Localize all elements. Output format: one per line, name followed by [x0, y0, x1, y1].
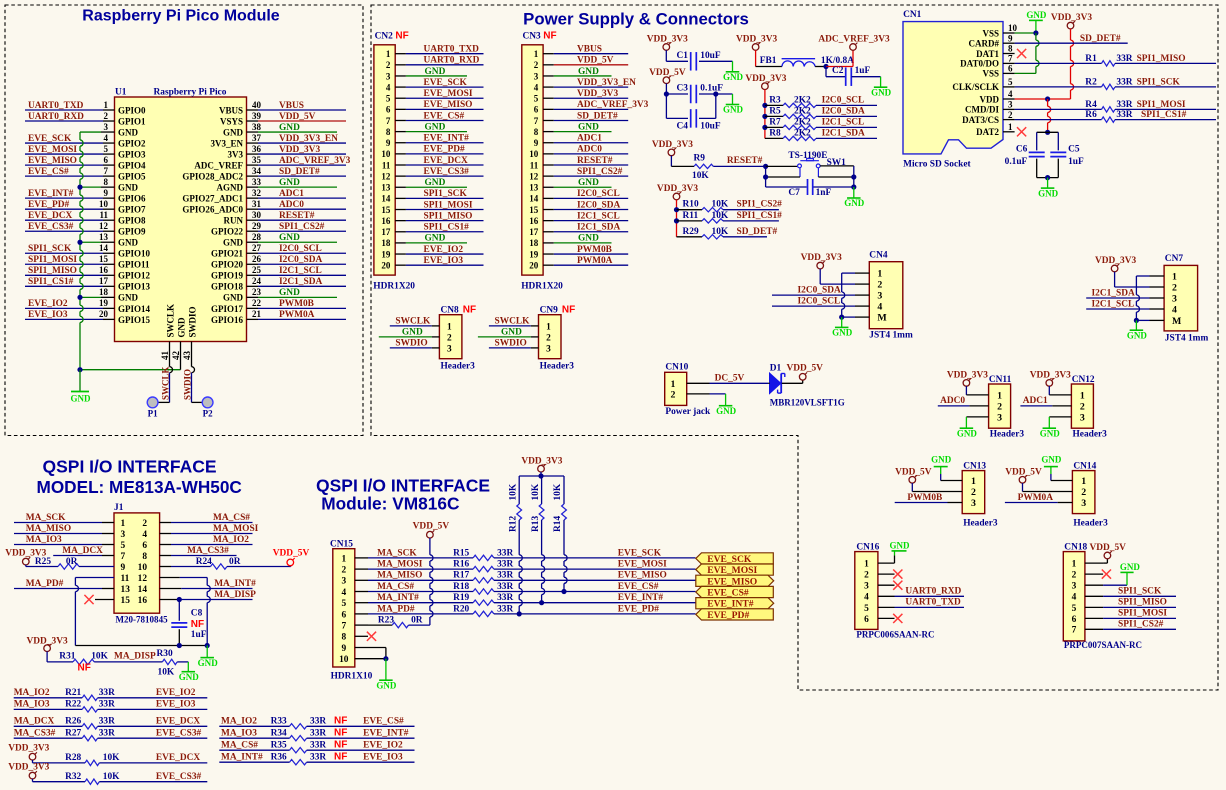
svg-text:GND: GND [279, 123, 300, 133]
svg-text:10K: 10K [158, 668, 175, 678]
capacitor C5 1uF branch [1057, 132, 1059, 150]
CN7 pin M [1150, 319, 1165, 321]
U1 right pin 29 wire/label [247, 230, 259, 232]
svg-text:33R: 33R [99, 688, 115, 698]
svg-text:EVE_DCX: EVE_DCX [156, 716, 201, 726]
wire C3 right [699, 93, 716, 95]
svg-text:C8: C8 [191, 609, 203, 619]
U1 left pin 20 wire/label [25, 318, 103, 320]
svg-text:RUN: RUN [223, 216, 243, 226]
svg-text:GPIO20: GPIO20 [211, 260, 244, 270]
svg-text:MA_MISO: MA_MISO [26, 524, 71, 534]
svg-text:EVE_MISO: EVE_MISO [28, 156, 77, 166]
CN1 pin 4 VDD [1003, 98, 1015, 100]
svg-text:R20: R20 [453, 604, 469, 614]
svg-text:5: 5 [864, 604, 869, 614]
svg-text:19: 19 [99, 298, 109, 308]
svg-text:PWM0A: PWM0A [1018, 493, 1054, 503]
svg-text:UART0_TXD: UART0_TXD [905, 598, 961, 608]
power port VDD_3V3 (I2C pullups) [762, 83, 769, 90]
CN1 pin 10 VSS [1003, 32, 1015, 34]
svg-text:GND: GND [931, 454, 952, 464]
svg-text:AGND: AGND [216, 183, 243, 193]
svg-text:R15: R15 [453, 548, 469, 558]
svg-text:6: 6 [534, 105, 539, 115]
no-connect X CN16 pin2 [893, 570, 902, 579]
svg-text:GPIO9: GPIO9 [118, 227, 146, 237]
svg-text:1: 1 [1008, 122, 1013, 132]
svg-text:MA_DCX: MA_DCX [14, 716, 55, 726]
svg-text:I2C0_SCL: I2C0_SCL [577, 189, 620, 199]
wire VDD_3V3 rail down (I2C pullups) [764, 89, 766, 138]
svg-text:ADC1: ADC1 [577, 134, 602, 144]
svg-text:40: 40 [252, 100, 262, 110]
junction at R5 row [762, 114, 767, 119]
svg-text:1: 1 [864, 560, 869, 570]
svg-text:CN18: CN18 [1064, 542, 1087, 552]
svg-text:6: 6 [1072, 615, 1077, 625]
svg-text:Header3: Header3 [990, 430, 1025, 440]
svg-text:2: 2 [386, 60, 391, 70]
svg-text:9: 9 [341, 644, 346, 654]
svg-text:EVE_MOSI: EVE_MOSI [618, 560, 667, 570]
power port VDD_3V3 (CN1) [1067, 22, 1074, 29]
U1 right pin 36 wire/label [247, 153, 259, 155]
svg-text:1: 1 [447, 322, 452, 332]
connector CN14 Header3 body [1072, 471, 1095, 514]
svg-text:23: 23 [252, 287, 262, 297]
svg-text:C2: C2 [832, 66, 844, 76]
svg-text:1uF: 1uF [191, 630, 207, 640]
svg-text:12: 12 [381, 171, 391, 181]
CN18 pin 1 [1085, 562, 1103, 564]
svg-text:VBUS: VBUS [219, 105, 243, 115]
svg-text:5: 5 [1008, 77, 1013, 87]
svg-text:GPIO7: GPIO7 [118, 205, 146, 215]
svg-text:1: 1 [386, 49, 391, 59]
svg-text:SPI1_MISO: SPI1_MISO [1137, 54, 1186, 64]
svg-text:GND: GND [179, 672, 200, 682]
ground below CN11 [965, 417, 967, 428]
section border: Raspberry Pi Pico Module box [5, 5, 363, 436]
svg-text:EVE_IO2: EVE_IO2 [424, 245, 464, 255]
U1 bottom pin 43 SWDIO [191, 342, 193, 367]
svg-text:GPIO21: GPIO21 [211, 249, 244, 259]
CN7 pin 1 [1150, 275, 1165, 277]
svg-text:UART0_TXD: UART0_TXD [28, 101, 84, 111]
svg-text:QSPI I/O INTERFACE: QSPI I/O INTERFACE [43, 457, 217, 477]
U1 right pin 40 wire/label [247, 109, 259, 111]
CN4 pin 4 [855, 305, 869, 307]
svg-text:CN1: CN1 [903, 10, 922, 20]
svg-text:Header3: Header3 [963, 519, 998, 529]
U1 left pin 4 wire/label [25, 142, 103, 144]
wire SD_DET# row [1015, 42, 1128, 44]
svg-text:8: 8 [341, 633, 346, 643]
svg-text:I2C1_SDA: I2C1_SDA [577, 223, 620, 233]
resistor R14 10K vertical [563, 476, 565, 504]
svg-text:GND: GND [223, 238, 244, 248]
junction R11 row [674, 218, 679, 223]
svg-text:1: 1 [671, 379, 676, 390]
svg-text:MA_IO2: MA_IO2 [221, 716, 257, 726]
connector CN10 power jack body [665, 372, 687, 405]
svg-text:11: 11 [99, 210, 108, 220]
svg-text:MA_CS#: MA_CS# [377, 582, 414, 592]
svg-text:I2C1_SCL: I2C1_SCL [577, 211, 620, 221]
svg-text:EVE_INT#: EVE_INT# [424, 134, 470, 144]
svg-text:VDD_5V: VDD_5V [279, 112, 316, 122]
junction CN15 GND [383, 656, 388, 661]
svg-text:32: 32 [252, 188, 262, 198]
svg-text:33R: 33R [497, 571, 513, 581]
junction at C3 row right [713, 91, 718, 96]
wire PWM0A to CN14 pin3 [1005, 502, 1058, 504]
svg-text:GND: GND [889, 540, 910, 550]
junction C5/C6 bottom [1045, 175, 1050, 180]
connector CN2 HDR1X20 body [374, 45, 395, 275]
svg-text:I2C1_SCL: I2C1_SCL [822, 117, 865, 127]
svg-text:4: 4 [386, 82, 391, 92]
resistor R19 33R row 5 [473, 600, 494, 605]
power port VDD_3V3 (CN11) [963, 380, 970, 387]
svg-text:2: 2 [877, 280, 882, 291]
svg-text:GPIO13: GPIO13 [118, 282, 151, 292]
svg-text:EVE_CS3#: EVE_CS3# [28, 222, 74, 232]
svg-text:CN9: CN9 [540, 305, 559, 315]
U1 left pin 2 wire/label [25, 120, 103, 122]
wire C4 row right [699, 117, 716, 119]
section border: Power Supply & Connectors box [371, 5, 1218, 690]
svg-text:GPIO17: GPIO17 [211, 304, 244, 314]
svg-text:5: 5 [386, 94, 391, 104]
svg-text:EVE_CS3#: EVE_CS3# [156, 772, 202, 782]
U1 left pin 15 wire/label [25, 263, 103, 265]
U1 right pin 26 wire/label [247, 263, 259, 265]
resistor R21 33R row MA_IO2->EVE_IO2 [14, 697, 83, 699]
svg-text:2: 2 [671, 390, 676, 401]
U1 right pin 28 wire/label [247, 241, 259, 243]
capacitor C2 [845, 67, 847, 86]
capacitor C4 [690, 109, 692, 128]
svg-text:VDD_3V3: VDD_3V3 [736, 35, 777, 45]
wire I2C0_SDA row [772, 294, 855, 296]
svg-text:12: 12 [138, 574, 148, 584]
power port VDD_5V (CN13) [909, 477, 916, 484]
svg-text:15: 15 [529, 205, 539, 215]
U1 right pin 24 wire/label [247, 285, 259, 287]
svg-text:R31: R31 [59, 652, 75, 662]
svg-text:3: 3 [1081, 498, 1086, 509]
svg-text:ADC0: ADC0 [577, 145, 602, 155]
svg-text:10uF: 10uF [700, 121, 721, 131]
svg-text:EVE_CS#: EVE_CS# [363, 716, 404, 726]
svg-text:5: 5 [1072, 604, 1077, 614]
svg-text:20: 20 [381, 260, 391, 270]
svg-text:EVE_CS#: EVE_CS# [618, 582, 659, 592]
svg-text:M: M [877, 313, 887, 324]
svg-text:GPIO1: GPIO1 [118, 116, 146, 126]
svg-text:9: 9 [103, 188, 108, 198]
svg-text:SPI1_CS2#: SPI1_CS2# [1118, 620, 1164, 630]
svg-text:GND: GND [1127, 330, 1148, 340]
svg-text:33R: 33R [497, 604, 513, 614]
wire CN11 pin3 to GND [966, 416, 988, 418]
svg-text:GPIO26_ADC0: GPIO26_ADC0 [182, 205, 243, 215]
power port VDD_3V3 (R28) [29, 753, 36, 760]
CN18 pin 2 [1085, 573, 1103, 575]
ground symbol below U1 left rail [79, 370, 81, 392]
CN1 pin 6 VSS [1003, 72, 1015, 74]
U1 right pin 33 wire/label [247, 186, 259, 188]
junction on GND rail at pin 13 [77, 240, 82, 245]
power port VDD_3V3 (CN7) [1111, 265, 1118, 272]
svg-text:41: 41 [160, 350, 170, 360]
svg-text:EVE_CS#: EVE_CS# [424, 111, 465, 121]
wire junction to ADC_VREF_3V3 [826, 66, 853, 68]
svg-text:VSS: VSS [982, 69, 999, 79]
svg-text:GND: GND [1041, 454, 1062, 464]
svg-text:33: 33 [252, 177, 262, 187]
svg-text:I2C0_SCL: I2C0_SCL [279, 244, 322, 254]
resistor R35 33R row MA_CS#->EVE_IO2 [219, 749, 289, 751]
svg-text:EVE_SCK: EVE_SCK [28, 134, 72, 144]
power port VDD_3V3 (R25) [23, 558, 30, 565]
svg-text:CN3: CN3 [523, 31, 542, 41]
svg-text:GND: GND [501, 328, 522, 338]
svg-text:R32: R32 [65, 772, 81, 782]
resistor R3 2K2 row I2C0_SCL [765, 104, 783, 106]
svg-text:10K: 10K [553, 483, 563, 500]
svg-text:7: 7 [534, 116, 539, 126]
svg-text:Raspberry Pi Pico Module: Raspberry Pi Pico Module [82, 8, 279, 25]
resistor R16 33R row 2 [473, 566, 494, 571]
svg-text:M: M [1172, 316, 1182, 327]
svg-text:I2C0_SCL: I2C0_SCL [798, 296, 841, 306]
CN10 pin 1 [687, 382, 710, 384]
svg-text:I2C1_SCL: I2C1_SCL [279, 266, 322, 276]
U1 left pin 11 wire/label [25, 219, 103, 221]
svg-text:17: 17 [529, 227, 539, 237]
svg-text:R21: R21 [65, 688, 81, 698]
connector CN9 Header3 body [539, 315, 562, 359]
svg-text:33R: 33R [99, 716, 115, 726]
svg-text:MA_MOSI: MA_MOSI [377, 560, 423, 570]
svg-text:4: 4 [864, 593, 869, 603]
svg-text:MA_IO2: MA_IO2 [14, 688, 50, 698]
svg-text:I2C1_SCL: I2C1_SCL [1092, 299, 1135, 309]
svg-text:R10: R10 [683, 200, 699, 210]
svg-text:2: 2 [142, 519, 147, 529]
resistor R5 2K2 row I2C0_SDA [765, 115, 783, 117]
resistor R22 33R row MA_IO3->EVE_IO3 [14, 708, 83, 710]
svg-text:33R: 33R [497, 548, 513, 558]
svg-text:1: 1 [997, 391, 1002, 402]
svg-text:38: 38 [252, 122, 262, 132]
svg-text:3V3_EN: 3V3_EN [210, 138, 243, 148]
wire VDD_3V3 to R31 [46, 651, 48, 662]
svg-text:6: 6 [142, 541, 147, 551]
svg-text:CARD#: CARD# [968, 39, 999, 49]
svg-text:EVE_MOSI: EVE_MOSI [28, 145, 77, 155]
U1 right pin 35 wire/label [247, 164, 259, 166]
wire: GND rail horizontal to pin 42 [80, 369, 181, 371]
svg-text:GPIO12: GPIO12 [118, 271, 151, 281]
wire junction down to C2 [825, 67, 827, 77]
svg-text:17: 17 [99, 276, 109, 286]
svg-text:3: 3 [877, 291, 882, 302]
svg-text:NF: NF [463, 304, 476, 315]
svg-text:NF: NF [334, 715, 347, 726]
svg-text:34: 34 [252, 166, 262, 176]
resistor R10 10K row SPI1_CS2# [677, 209, 703, 211]
svg-text:MA_IO3: MA_IO3 [221, 728, 257, 738]
resistor R25 0R [25, 565, 27, 567]
svg-text:UART0_RXD: UART0_RXD [905, 587, 961, 597]
svg-text:VDD_5V: VDD_5V [1090, 543, 1127, 553]
U1 right pin 31 wire/label [247, 208, 259, 210]
svg-text:MA_DISP: MA_DISP [114, 652, 156, 662]
svg-text:EVE_INT#: EVE_INT# [618, 593, 664, 603]
svg-text:3V3: 3V3 [227, 149, 243, 159]
resistor R28 10K row EVE_DCX [32, 760, 34, 763]
power port VDD_3V3 (CN12) [1046, 380, 1053, 387]
wire VDD_3V3 to FB1 [755, 50, 757, 66]
svg-text:GND: GND [957, 428, 978, 438]
svg-text:Power jack: Power jack [665, 407, 711, 417]
svg-text:EVE_INT#: EVE_INT# [363, 728, 409, 738]
svg-text:GND: GND [70, 394, 91, 404]
svg-text:33R: 33R [99, 728, 115, 738]
svg-text:10: 10 [99, 199, 109, 209]
svg-text:CN14: CN14 [1073, 461, 1096, 471]
svg-text:C3: C3 [677, 84, 689, 94]
ground below CN12 [1048, 417, 1050, 428]
svg-text:24: 24 [252, 276, 262, 286]
svg-text:D1: D1 [770, 363, 782, 373]
svg-text:3: 3 [103, 122, 108, 132]
svg-text:VDD_5V: VDD_5V [787, 363, 824, 373]
wire C4 row left [666, 117, 688, 119]
svg-text:21: 21 [252, 309, 262, 319]
CN7 pin 2 [1150, 286, 1165, 288]
connector CN7 JST4 body [1164, 265, 1198, 331]
svg-text:NF: NF [562, 304, 575, 315]
svg-text:R25: R25 [35, 557, 51, 567]
svg-text:GND: GND [832, 328, 853, 338]
connector CN15 HDR1X10 body [333, 549, 355, 667]
ground above CN16 [894, 551, 896, 556]
wire CN15 pin9 to GND [355, 647, 386, 649]
svg-text:43: 43 [182, 350, 192, 360]
svg-text:GND: GND [177, 317, 187, 338]
svg-text:33R: 33R [1116, 54, 1132, 64]
power port VDD_5V (R24) bright red [287, 559, 294, 566]
U1 left pin 19 wire/label [25, 307, 103, 309]
svg-text:GND: GND [716, 406, 737, 416]
resistor R32 10K row EVE_CS3# [32, 779, 34, 782]
svg-text:2: 2 [534, 60, 539, 70]
svg-text:35: 35 [252, 155, 262, 165]
svg-text:DAT0/DO: DAT0/DO [960, 59, 999, 69]
svg-text:33R: 33R [1116, 110, 1132, 120]
port flag EVE_SCK [696, 553, 774, 564]
svg-text:GPIO4: GPIO4 [118, 161, 146, 171]
U1 left pin 9 wire/label [25, 197, 103, 199]
svg-text:29: 29 [252, 221, 262, 231]
port flag EVE_MISO [696, 575, 774, 586]
svg-text:33R: 33R [310, 728, 326, 738]
svg-text:SPI1_CS2#: SPI1_CS2# [737, 200, 783, 210]
svg-text:SPI1_MISO: SPI1_MISO [1118, 598, 1167, 608]
IC U1 Raspberry Pi Pico module body [115, 97, 247, 342]
svg-text:VDD_3V3: VDD_3V3 [1095, 256, 1136, 266]
wire GND rail down to pin6 [1035, 33, 1037, 40]
power port VDD_3V3 (C1) [663, 44, 670, 51]
svg-text:SPI1_MISO: SPI1_MISO [28, 266, 77, 276]
svg-text:P1: P1 [148, 409, 159, 419]
U1 left pin 7 wire/label [25, 175, 103, 177]
ground above CN18 pin3 [1120, 571, 1133, 573]
svg-text:EVE_CS#: EVE_CS# [707, 588, 749, 599]
svg-text:PRPC006SAAN-RC: PRPC006SAAN-RC [856, 629, 934, 639]
wire FB1 to junction [815, 66, 826, 68]
svg-text:CN2: CN2 [375, 31, 394, 41]
wire MA_CS3# row right of J1 [160, 555, 171, 557]
svg-text:MA_IO3: MA_IO3 [14, 700, 50, 710]
svg-text:R28: R28 [65, 753, 81, 763]
power port VDD_3V3 (CN4) [817, 262, 824, 269]
junction C8 top [177, 597, 182, 602]
svg-text:SWDIO: SWDIO [182, 369, 192, 400]
svg-text:33R: 33R [497, 593, 513, 603]
power port VDD_3V3 (R10/R11/R29) [673, 193, 680, 200]
svg-text:EVE_PD#: EVE_PD# [707, 610, 749, 621]
CN1 pin 3 CMD/DI [1003, 108, 1015, 110]
no-connect X CN15 pin8 [355, 635, 368, 637]
svg-text:Header3: Header3 [540, 362, 575, 372]
junction SW1 right [851, 174, 856, 179]
port flag EVE_CS# [696, 586, 774, 597]
svg-text:EVE_PD#: EVE_PD# [28, 200, 69, 210]
svg-text:I2C1_SDA: I2C1_SDA [1092, 288, 1135, 298]
svg-text:CN16: CN16 [856, 542, 879, 552]
svg-text:MODEL: ME813A-WH50C: MODEL: ME813A-WH50C [37, 477, 242, 497]
resistor R8 2K2 row I2C1_SDA [765, 137, 783, 139]
svg-text:4: 4 [341, 588, 346, 598]
ground below CN7 [1135, 320, 1137, 330]
svg-text:13: 13 [529, 183, 539, 193]
svg-text:U1: U1 [115, 88, 127, 98]
svg-text:C5: C5 [1068, 145, 1080, 155]
svg-text:2: 2 [1081, 487, 1086, 498]
svg-text:MA_SCK: MA_SCK [26, 513, 66, 523]
svg-text:CN4: CN4 [869, 251, 888, 261]
svg-text:EVE_IO3: EVE_IO3 [363, 752, 403, 762]
svg-text:3: 3 [997, 413, 1002, 424]
wire GND to CN14 pin1 [1050, 474, 1052, 481]
power port ADC_VREF_3V3 [850, 44, 857, 51]
ground below CN15 [385, 659, 387, 681]
svg-text:7: 7 [121, 552, 126, 562]
svg-text:11: 11 [530, 160, 539, 170]
U1 right pin 22 wire/label [247, 307, 259, 309]
ground below CN4 [841, 317, 843, 327]
svg-text:C4: C4 [677, 121, 689, 131]
svg-text:FB1: FB1 [760, 56, 777, 66]
svg-text:PWM0B: PWM0B [907, 493, 942, 503]
connector CN3 HDR1X20 body [522, 45, 543, 275]
